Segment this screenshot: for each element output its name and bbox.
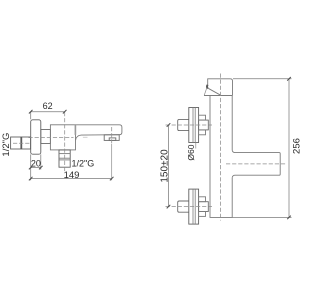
upper hex nut middle band: [199, 120, 209, 130]
body top line: [204, 95, 233, 97]
body column: [210, 96, 232, 218]
svg-text:1/2"G: 1/2"G: [72, 159, 95, 169]
fitting ridge line 1: [59, 153, 70, 155]
dim 149 ticks: [29, 177, 114, 181]
upper hex nut bottom band: [199, 130, 206, 135]
dim 62 ticks: [29, 110, 67, 114]
upper wall flange: [189, 108, 199, 143]
lower union nut: [178, 201, 189, 212]
upper flange inner line 2: [194, 108, 196, 143]
upper flange inner line 1: [192, 108, 194, 143]
spout outline: [76, 125, 122, 140]
spout (front view): [232, 150, 280, 177]
outlet extension line down to 149 dim: [111, 144, 113, 180]
pipe axis centerline: [13, 142, 30, 144]
wall flange (escutcheon): [31, 120, 41, 154]
handle: [208, 79, 233, 96]
dimension 256 line: [288, 79, 290, 218]
dimension 150±20 line: [168, 125, 170, 207]
mixer body: [50, 125, 75, 150]
lower inlet axis: [166, 206, 213, 208]
dim 20 ticks: [29, 166, 43, 170]
dimension 256 extension bottom: [232, 216, 291, 218]
lower hex nut middle band: [199, 202, 209, 212]
vertical centerline / valve axis: [64, 112, 66, 172]
dimension 62 line: [31, 112, 65, 120]
svg-text:256: 256: [291, 138, 300, 154]
lever underside diagonal: [208, 88, 220, 95]
connector between flange and body: [41, 130, 51, 144]
spout underside faint edge: [83, 136, 88, 138]
fitting ridge line 3: [59, 159, 70, 161]
spout outlet axis: [111, 127, 113, 144]
upper hex nut top band: [199, 115, 206, 120]
upper inlet axis: [166, 124, 213, 126]
spout/body joint line: [74, 125, 76, 135]
aerator box under spout tip: [104, 135, 119, 141]
spout axis: [226, 163, 287, 165]
dim 150 ticks: [167, 123, 171, 208]
svg-text:150±20: 150±20: [160, 149, 171, 183]
lever back edge diagonal: [204, 88, 206, 95]
flange diameter leader: [195, 143, 197, 149]
wall union pipe: [11, 137, 31, 149]
lower flange inner line 2: [194, 189, 196, 224]
shower outlet fitting below body: [59, 150, 70, 167]
lower flange inner line 1: [192, 189, 194, 224]
horizontal centerline of body: [29, 137, 74, 139]
upper union nut: [178, 119, 189, 130]
lower wall flange: [189, 189, 199, 224]
aerator inner rect: [109, 138, 116, 141]
lever end cap: [206, 85, 209, 89]
fitting ridge line 2: [59, 157, 70, 159]
body vertical centerline: [219, 74, 221, 221]
svg-text:62: 62: [43, 101, 53, 111]
dim 256 ticks: [287, 77, 291, 219]
dimension 20 line: [31, 154, 41, 180]
lower hex nut bottom band: [199, 212, 206, 217]
svg-text:1/2"G: 1/2"G: [1, 133, 12, 157]
svg-text:149: 149: [64, 170, 80, 181]
dimension 149 line: [31, 178, 112, 180]
svg-text:20: 20: [31, 158, 41, 168]
lower hex nut top band: [199, 197, 206, 202]
union nut line: [20, 137, 22, 149]
dimension 256 extension top: [233, 78, 292, 80]
svg-text:Ø60: Ø60: [186, 144, 196, 160]
